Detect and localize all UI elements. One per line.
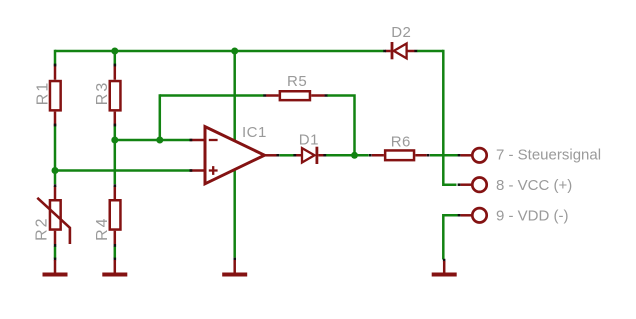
wire R1 bottom to plus node <box>54 126 57 171</box>
wire R3 bottom to minus node <box>114 126 117 140</box>
wire minus node down to R4 <box>114 140 117 184</box>
svg-text:R2: R2 <box>34 216 51 240</box>
resistor R1 <box>34 64 60 127</box>
resistor R3 <box>94 64 120 127</box>
diode D2 <box>383 24 417 59</box>
wire pin 9 to ground corner <box>443 215 458 259</box>
ground under op-amp V- <box>222 258 247 277</box>
svg-text:R3: R3 <box>94 81 111 105</box>
wire plus input horizontal <box>55 169 190 172</box>
svg-text:9 - VDD (-): 9 - VDD (-) <box>496 207 569 224</box>
svg-text:8 - VCC (+): 8 - VCC (+) <box>496 177 572 194</box>
terminal pin 8 <box>458 178 487 192</box>
svg-text:D2: D2 <box>391 24 411 41</box>
node junction top rail at op-amp V+ <box>231 48 238 55</box>
node junction minus wire at feedback <box>156 137 163 144</box>
wire minus input horizontal <box>115 139 190 142</box>
wire R1 top lead <box>54 50 57 65</box>
wire VCC vertical down to pin 8 <box>443 50 456 185</box>
wire D1 cathode to R6 <box>326 154 369 157</box>
wire feedback left vertical <box>159 94 162 140</box>
terminal pin 7 <box>458 148 487 162</box>
svg-text:R1: R1 <box>34 81 51 105</box>
wire R4 bottom to ground <box>114 246 117 258</box>
terminal pin 9 <box>458 208 487 222</box>
svg-text:R5: R5 <box>287 73 307 90</box>
svg-text:R4: R4 <box>94 216 111 240</box>
wire R5 left horizontal <box>160 94 264 97</box>
ground under R4 <box>102 258 127 277</box>
resistor R6 <box>369 134 430 161</box>
wire op-amp V+ vertical <box>233 51 236 141</box>
wire R5 right to feedback corner <box>327 96 355 156</box>
resistor R5 <box>263 73 327 100</box>
op-amp IC1 <box>190 124 280 184</box>
wire R3 top lead <box>114 51 117 65</box>
ground under R2 <box>43 258 68 277</box>
wire R2 bottom to ground <box>54 246 57 258</box>
resistor R2 (varistor) <box>34 184 70 247</box>
node junction output at feedback <box>351 152 358 159</box>
node junction plus wire at R1 bottom <box>52 167 59 174</box>
node junction top rail at R3 <box>111 48 118 55</box>
svg-text:7 - Steuersignal: 7 - Steuersignal <box>496 147 601 164</box>
svg-text:IC1: IC1 <box>242 124 267 141</box>
resistor R4 <box>94 184 120 247</box>
diode D1 <box>293 132 326 164</box>
wire plus node down to R2 <box>54 171 57 185</box>
wire op-amp V- vertical to ground <box>233 170 236 258</box>
svg-text:R6: R6 <box>391 134 411 151</box>
ground under pin 9 <box>432 259 457 277</box>
wire top rail right of D2 <box>417 50 443 53</box>
wire top rail horizontal <box>55 50 384 53</box>
wire op-amp output to D1 <box>280 154 294 157</box>
node junction minus wire at R3 bottom <box>111 137 118 144</box>
wire R6 right to pin 7 <box>430 154 458 157</box>
svg-text:D1: D1 <box>299 132 319 149</box>
